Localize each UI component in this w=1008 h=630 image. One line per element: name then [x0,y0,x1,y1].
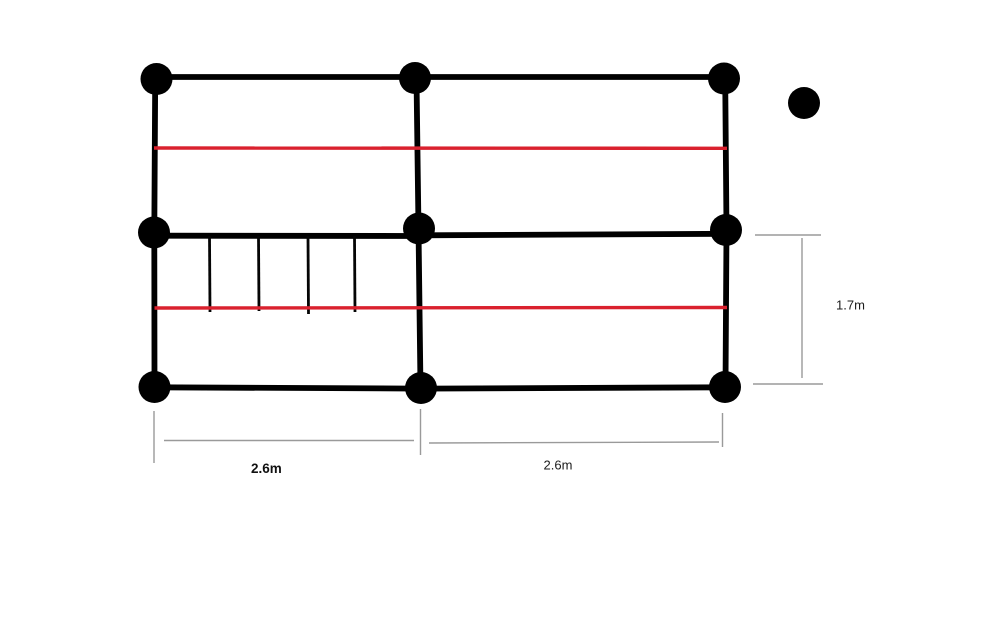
svg-text:2.6m: 2.6m [251,461,282,476]
node top-left [141,63,173,95]
ladder tick 2 [257,236,260,311]
dimension tick right bottom [753,383,823,385]
wire left vertical [151,80,158,387]
node bottom-left [139,371,171,403]
node bottom-right [709,371,741,403]
wire middle chord right segment [419,234,727,236]
node top-right [708,63,740,95]
node isolated top-right [788,87,820,119]
dimension line span 2 [429,442,719,443]
dimension line span 1 [164,440,414,442]
wire middle chord left segment [154,233,419,239]
dimension extension line right [722,413,724,447]
wire top chord [156,74,724,80]
wire center vertical [417,79,421,388]
svg-text:1.7m: 1.7m [836,298,865,313]
ladder tick 3 [307,236,310,314]
node mid-center [403,213,435,245]
node bottom-center [405,372,437,404]
dimension extension line left [153,411,155,463]
ladder tick 1 [208,236,211,312]
red line lower [155,306,728,310]
red line upper [154,146,727,150]
dimension tick right top [755,234,821,236]
wire right vertical [725,79,726,387]
dimension extension line center [420,409,422,455]
node top-center [399,62,431,94]
ladder tick 4 [353,236,356,312]
node mid-right [710,214,742,246]
svg-text:2.6m: 2.6m [544,457,573,472]
node mid-left [138,217,170,249]
wire bottom chord [154,387,725,388]
dimension vertical right [801,238,803,378]
